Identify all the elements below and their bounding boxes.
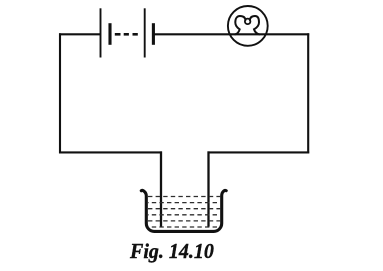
liquid row 6: [148, 226, 220, 228]
liquid row 5: [148, 220, 220, 222]
liquid dashed lines: [148, 197, 220, 228]
lamp filament left shoulder: [235, 16, 245, 34]
liquid row 4: [148, 214, 220, 216]
wire top-right (battery through lamp to right corner): [154, 33, 309, 35]
liquid row 2: [148, 202, 220, 204]
battery cell 2 long plate (positive): [144, 8, 146, 57]
battery cell 1 long plate (positive): [100, 8, 102, 57]
battery cell 1 short thick plate (negative): [108, 23, 111, 45]
wire top-left (battery to left corner): [59, 33, 100, 35]
wire bottom-right horizontal: [208, 151, 310, 153]
battery cell 2 short thick plate (negative): [152, 23, 155, 45]
electrode left (rod into beaker): [160, 151, 162, 226]
lamp bulb outline circle: [228, 6, 268, 46]
wire left vertical: [59, 33, 61, 153]
battery dashes (more cells): [115, 33, 138, 36]
electrode right (rod into beaker): [207, 151, 209, 226]
beaker outline with curled rim: [141, 190, 226, 231]
wire bottom-left horizontal: [59, 151, 162, 153]
liquid row 3: [148, 208, 220, 210]
lamp filament right shoulder: [250, 16, 259, 34]
lamp filament small loop: [245, 19, 251, 25]
wire right vertical: [307, 33, 309, 153]
liquid row 1: [148, 196, 220, 198]
caption Fig. 14.10: [130, 239, 214, 264]
